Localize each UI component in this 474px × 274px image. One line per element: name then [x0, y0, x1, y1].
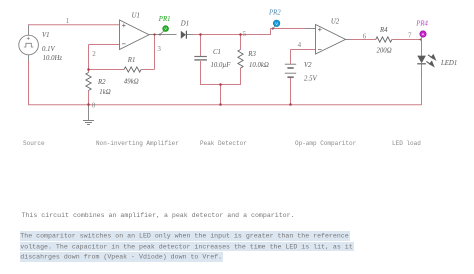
svg-text:0: 0: [92, 102, 96, 110]
svg-text:V2: V2: [304, 62, 312, 69]
svg-text:C1: C1: [213, 49, 221, 56]
svg-text:1: 1: [66, 17, 70, 25]
svg-text:R2: R2: [97, 79, 106, 86]
svg-text:200Ω: 200Ω: [377, 47, 392, 54]
svg-text:V: V: [275, 21, 278, 26]
svg-text:R3: R3: [247, 51, 256, 58]
svg-text:5: 5: [243, 30, 247, 38]
svg-text:V: V: [164, 26, 167, 31]
svg-text:10.0kΩ: 10.0kΩ: [249, 62, 269, 69]
svg-text:LED1: LED1: [440, 60, 457, 67]
svg-text:7: 7: [408, 32, 412, 40]
svg-text:1kΩ: 1kΩ: [99, 89, 110, 96]
svg-text:10.0Hz: 10.0Hz: [43, 55, 63, 62]
svg-text:A: A: [422, 32, 425, 37]
svg-text:U2: U2: [331, 18, 340, 25]
svg-text:U1: U1: [132, 12, 140, 19]
svg-text:49kΩ: 49kΩ: [124, 79, 139, 86]
svg-text:3: 3: [157, 45, 161, 53]
svg-text:2.5V: 2.5V: [304, 75, 317, 82]
svg-text:4: 4: [298, 41, 302, 49]
svg-text:10.0µF: 10.0µF: [211, 62, 232, 69]
svg-text:PR2: PR2: [268, 10, 281, 17]
svg-text:2: 2: [92, 50, 96, 58]
svg-text:6: 6: [363, 33, 367, 41]
svg-text:0.1V: 0.1V: [42, 46, 55, 53]
svg-text:R1: R1: [127, 57, 136, 64]
svg-text:PR1: PR1: [158, 16, 171, 23]
svg-text:D1: D1: [180, 21, 189, 28]
svg-text:R4: R4: [379, 27, 388, 34]
svg-text:V1: V1: [42, 32, 50, 39]
svg-text:PR4: PR4: [415, 20, 428, 27]
